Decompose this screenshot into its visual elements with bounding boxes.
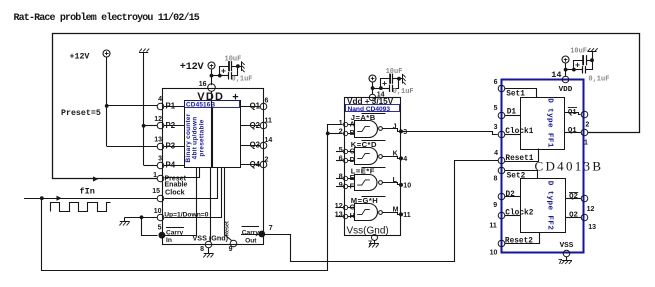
svg-text:10: 10	[154, 208, 162, 215]
svg-text:VDD: VDD	[559, 86, 573, 94]
svg-text:6: 6	[494, 79, 498, 86]
svg-text:M=G*H: M=G*H	[351, 196, 378, 205]
svg-text:J=A*B: J=A*B	[351, 113, 376, 122]
svg-text:14: 14	[377, 92, 385, 99]
svg-text:11: 11	[489, 223, 497, 230]
svg-text:10uF: 10uF	[570, 48, 587, 56]
svg-text:VSS (Gnd): VSS (Gnd)	[193, 234, 229, 243]
svg-text:Q2: Q2	[569, 193, 578, 201]
svg-text:14: 14	[265, 137, 273, 144]
svg-text:P2: P2	[166, 121, 176, 130]
svg-text:0,1uF: 0,1uF	[232, 76, 253, 84]
svg-text:presettable: presettable	[198, 119, 205, 156]
svg-text:4: 4	[403, 156, 407, 163]
svg-text:13: 13	[588, 224, 596, 231]
svg-text:K: K	[393, 151, 398, 158]
svg-text:7: 7	[368, 240, 372, 247]
svg-text:0,1uF: 0,1uF	[393, 88, 414, 96]
svg-text:Preset=5: Preset=5	[61, 109, 101, 118]
svg-text:Set2: Set2	[507, 172, 526, 180]
svg-text:+: +	[232, 91, 238, 103]
svg-text:Q2: Q2	[569, 211, 578, 219]
svg-text:Reset1: Reset1	[505, 155, 533, 163]
svg-text:Q3: Q3	[250, 141, 261, 150]
svg-text:9: 9	[229, 246, 233, 253]
svg-text:Q1: Q1	[250, 101, 261, 110]
svg-text:Reset2: Reset2	[505, 237, 533, 245]
svg-text:+: +	[221, 67, 226, 77]
svg-text:In: In	[166, 237, 172, 244]
svg-text:11: 11	[403, 212, 411, 219]
svg-text:8: 8	[200, 246, 204, 253]
svg-text:Clock1: Clock1	[505, 128, 533, 136]
svg-text:Clock2: Clock2	[505, 210, 533, 218]
svg-text:4: 4	[158, 96, 162, 103]
svg-text:Vss(Gnd): Vss(Gnd)	[347, 226, 389, 237]
svg-text:6: 6	[265, 98, 269, 105]
svg-text:6: 6	[339, 154, 343, 163]
svg-text:10: 10	[403, 182, 411, 189]
svg-text:16: 16	[199, 81, 207, 88]
svg-text:+: +	[575, 61, 580, 71]
svg-text:Rat-Race problem electroyou 11: Rat-Race problem electroyou 11/02/15	[14, 12, 200, 24]
svg-text:7: 7	[558, 259, 563, 267]
svg-text:D1: D1	[507, 109, 517, 117]
svg-text:Clock: Clock	[165, 188, 185, 197]
svg-text:Q2: Q2	[250, 121, 261, 130]
svg-text:8: 8	[493, 176, 497, 183]
svg-text:2: 2	[265, 156, 269, 163]
svg-text:P4: P4	[166, 161, 176, 170]
svg-text:Q1: Q1	[568, 127, 577, 135]
svg-text:Set1: Set1	[506, 91, 525, 99]
svg-text:D2: D2	[506, 191, 516, 199]
svg-text:4: 4	[494, 150, 498, 157]
svg-text:Out: Out	[245, 237, 257, 244]
svg-text:Q1: Q1	[568, 109, 577, 117]
svg-text:Up=1/Down=0: Up=1/Down=0	[164, 211, 209, 218]
svg-text:5: 5	[494, 105, 498, 112]
svg-text:+12V: +12V	[70, 52, 90, 61]
svg-text:F: F	[350, 182, 355, 191]
svg-text:+12V: +12V	[180, 62, 205, 73]
svg-text:Reset: Reset	[224, 221, 230, 236]
svg-text:Nand CD4093: Nand CD4093	[348, 106, 391, 113]
svg-text:fIn: fIn	[80, 186, 95, 196]
svg-text:Carry: Carry	[166, 229, 184, 236]
svg-text:D type FF1: D type FF1	[546, 98, 554, 148]
svg-text:2: 2	[339, 127, 343, 136]
svg-text:9: 9	[493, 202, 497, 209]
svg-text:11: 11	[265, 117, 273, 124]
svg-text:7: 7	[269, 225, 273, 232]
svg-text:9: 9	[339, 180, 343, 189]
svg-text:3: 3	[403, 129, 407, 136]
svg-text:10: 10	[490, 250, 498, 257]
svg-text:P1: P1	[166, 101, 176, 110]
svg-text:L: L	[393, 177, 398, 184]
svg-text:12: 12	[154, 116, 162, 123]
svg-text:P3: P3	[166, 142, 176, 151]
svg-text:10uF: 10uF	[386, 68, 403, 76]
svg-text:3: 3	[494, 124, 498, 131]
svg-text:+: +	[382, 79, 387, 89]
svg-text:13: 13	[154, 137, 162, 144]
svg-text:10uF: 10uF	[225, 55, 242, 63]
svg-text:K=C*D: K=C*D	[351, 140, 377, 149]
svg-text:2: 2	[585, 122, 589, 129]
svg-text:3: 3	[158, 156, 162, 163]
svg-text:14: 14	[551, 70, 561, 80]
svg-text:VSS: VSS	[560, 242, 574, 250]
svg-text:J: J	[393, 124, 397, 131]
svg-text:13: 13	[335, 210, 343, 219]
svg-text:Carry: Carry	[242, 229, 260, 236]
svg-text:CD4013B: CD4013B	[535, 158, 604, 173]
svg-text:M: M	[393, 207, 399, 214]
svg-text:VDD: VDD	[197, 91, 224, 103]
svg-text:0,1uF: 0,1uF	[588, 75, 609, 83]
svg-text:1: 1	[584, 140, 588, 147]
svg-text:15: 15	[152, 188, 160, 195]
svg-text:5: 5	[158, 225, 162, 232]
svg-text:1: 1	[153, 172, 157, 179]
svg-text:Q4: Q4	[250, 160, 261, 169]
svg-text:12: 12	[587, 206, 595, 213]
svg-text:D type FF2: D type FF2	[546, 181, 554, 231]
